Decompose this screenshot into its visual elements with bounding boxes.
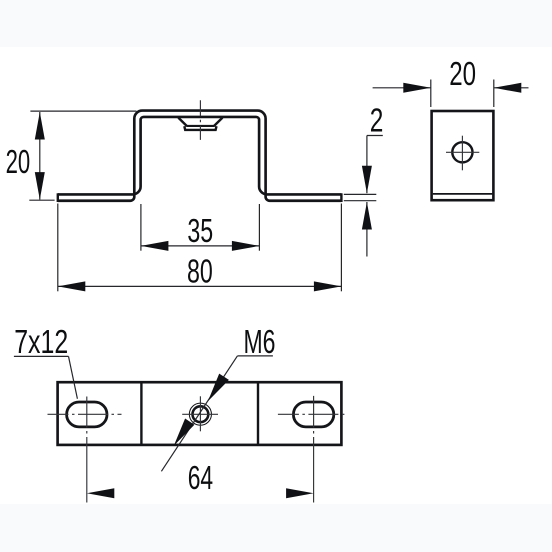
dimension 80 line <box>58 285 342 287</box>
dimension 20 (front height) top extension line <box>30 110 136 112</box>
dimension 2 extension line bottom <box>344 200 377 202</box>
dimension 20 arrow down <box>35 172 45 200</box>
svg-text:20: 20 <box>449 56 476 93</box>
side view hole vertical centerline <box>461 136 463 171</box>
thread boss inner bottom line <box>186 125 214 127</box>
left slot vertical centerline <box>86 397 88 503</box>
right slot vertical centerline <box>313 396 315 503</box>
right flange end cap <box>340 193 342 202</box>
side view hole <box>452 142 472 162</box>
dimension 35 line <box>141 245 260 247</box>
side view hole horizontal centerline <box>446 151 479 153</box>
dimension 2 arrow down <box>362 166 372 194</box>
dimension 20 (width) left line <box>373 87 431 89</box>
dimension 80 left extension line <box>57 204 59 292</box>
dimension 80 arrow left <box>58 281 86 291</box>
front view inner surface <box>58 117 342 195</box>
dimension 2 lower line <box>366 202 368 257</box>
dimension 35 right extension line <box>258 204 260 251</box>
leader M6 arrow at hole <box>208 374 229 402</box>
dimension 20 arrow up <box>35 112 45 140</box>
plan view right bend line <box>257 382 259 445</box>
dimension 20 (width) left extension line <box>430 80 432 108</box>
dimension 20 (width) arrow left-pointing <box>494 83 522 93</box>
thread boss right slant <box>214 118 223 126</box>
leader M6 arrow at edge <box>174 419 195 446</box>
dimension 35 arrow left <box>141 241 169 251</box>
dimension 2 upper line <box>366 136 368 194</box>
dimension 20 (width) right extension line <box>493 80 495 108</box>
dimension 2 extension line top <box>344 193 377 195</box>
leader M6 diagonal <box>161 356 237 471</box>
left flange end cap <box>57 193 59 202</box>
dimension 80 arrow right <box>314 281 342 291</box>
svg-text:64: 64 <box>188 460 213 497</box>
left slot 7x12 <box>67 402 107 427</box>
dimension 20 (width) right line <box>494 87 529 89</box>
center hole horizontal centerline <box>182 413 218 415</box>
dimension 80 right extension line <box>340 204 342 292</box>
svg-text:80: 80 <box>187 254 213 291</box>
leader 7x12 shelf <box>14 355 69 357</box>
dimension 20 (width) arrow right-pointing <box>403 83 431 93</box>
center hole M6 minor circle <box>193 406 209 422</box>
dimension 20 bottom extension line <box>29 199 54 201</box>
left slot horizontal centerline <box>48 413 122 415</box>
svg-text:7x12: 7x12 <box>14 324 68 361</box>
dimension 20 line <box>39 112 41 200</box>
plan view left bend line <box>140 382 142 445</box>
right slot 7x12 <box>293 402 333 427</box>
side view body <box>432 111 494 200</box>
dimension 64 arrow left <box>87 488 115 498</box>
leader M6 shelf <box>237 355 273 357</box>
dimension 64 arrow right <box>286 488 314 498</box>
center hole M6 thread circle <box>189 403 211 425</box>
leader 7x12 diagonal <box>69 356 78 398</box>
dimension 35 arrow right <box>232 241 260 251</box>
svg-text:20: 20 <box>6 144 31 181</box>
side view flange line <box>433 193 493 195</box>
boss centerline <box>199 100 201 140</box>
dimension 35 left extension line <box>140 204 142 251</box>
svg-text:M6: M6 <box>244 324 276 361</box>
thread boss left slant <box>178 118 187 126</box>
center hole vertical centerline <box>199 396 201 431</box>
svg-text:2: 2 <box>370 102 384 139</box>
plan view outline <box>58 382 342 445</box>
dimension 2 arrow up <box>362 202 372 230</box>
thread boss outer bottom plate <box>184 126 216 130</box>
top letterbox band <box>0 0 552 47</box>
bottom letterbox band <box>0 504 552 552</box>
dimension 2 shelf <box>367 135 383 137</box>
right slot horizontal centerline <box>278 413 348 415</box>
front view outer surface <box>58 111 342 201</box>
svg-text:35: 35 <box>187 213 213 250</box>
